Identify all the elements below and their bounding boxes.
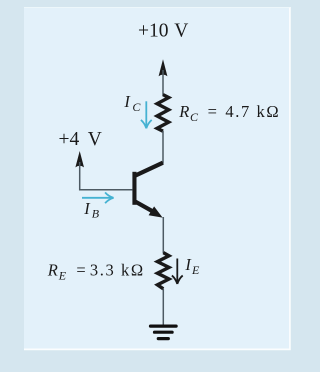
label RC = 4.7 kOhm (178, 102, 280, 124)
wire supply stem (162, 70, 164, 96)
current arrow IE (black) (172, 259, 183, 285)
figure panel (24, 7, 290, 349)
svg-text:=: = (76, 261, 85, 280)
current arrow IB (cyan) (82, 192, 114, 203)
wire emitter to RE (162, 217, 164, 253)
svg-text:4.7 kΩ: 4.7 kΩ (225, 102, 280, 121)
label IC (123, 92, 141, 114)
emitter stroke (135, 201, 157, 213)
wire base branch (80, 162, 133, 190)
base bar (132, 172, 136, 205)
svg-text:E: E (191, 263, 200, 277)
svg-text:+10V: +10V (138, 21, 188, 42)
label IB (83, 199, 99, 221)
power arrow to +4V (75, 151, 84, 167)
svg-text:E: E (58, 269, 67, 283)
emitter arrowhead (149, 206, 163, 217)
svg-text:R: R (47, 261, 58, 280)
svg-text:=: = (208, 102, 217, 121)
power arrow to +10V (159, 59, 168, 76)
svg-text:C: C (132, 100, 141, 114)
label RE = 3.3 kOhm (47, 261, 145, 283)
svg-text:B: B (92, 207, 100, 221)
current arrow IC (cyan) (141, 101, 152, 128)
resistor RC (157, 95, 169, 132)
ground (151, 326, 177, 339)
collector stroke (135, 163, 163, 176)
svg-text:3.3 kΩ: 3.3 kΩ (90, 261, 145, 280)
svg-text:C: C (190, 110, 199, 124)
label IE (184, 255, 200, 277)
transistor Q1 (npn) (132, 163, 163, 218)
resistor RE (157, 253, 169, 289)
wire RC to collector (162, 131, 164, 164)
wire RE to ground (162, 289, 164, 326)
svg-text:R: R (178, 102, 189, 121)
